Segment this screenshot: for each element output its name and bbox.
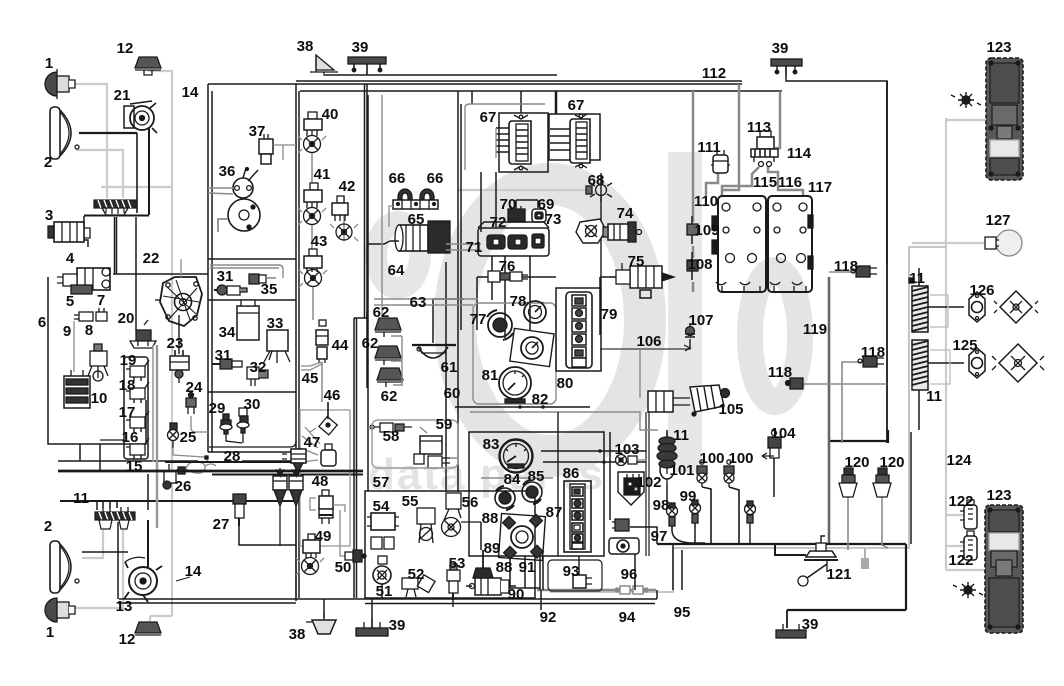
gauge 83 tachometer: [500, 440, 533, 473]
svg-text:19: 19: [120, 352, 137, 369]
coil 3 hook: [81, 240, 88, 247]
svg-text:7: 7: [97, 292, 105, 309]
plug 118a: [851, 266, 877, 277]
wire bus y412: [470, 412, 658, 430]
svg-text:66: 66: [427, 170, 444, 187]
svg-text:75: 75: [628, 253, 645, 270]
distributor 36: [208, 168, 260, 233]
svg-text:42: 42: [339, 178, 356, 195]
wire top bus y91: [300, 90, 782, 92]
svg-text:26: 26: [175, 478, 192, 495]
svg-text:98: 98: [653, 497, 670, 514]
harness 119 vertical: [828, 277, 831, 545]
box 120: [910, 432, 912, 544]
connector 52: [402, 575, 435, 597]
plug 120b: [873, 468, 891, 497]
svg-text:34: 34: [219, 324, 236, 341]
gray box 46-49: [300, 410, 350, 546]
svg-text:117: 117: [808, 179, 832, 196]
plug 25: [168, 423, 209, 461]
dome light 61: [412, 345, 456, 358]
svg-text:20: 20: [118, 310, 135, 327]
svg-text:31: 31: [215, 347, 232, 364]
wire 118a: [829, 271, 856, 273]
svg-text:109: 109: [694, 222, 719, 239]
svg-text:118: 118: [768, 364, 792, 381]
svg-text:45: 45: [302, 370, 319, 387]
svg-text:62: 62: [362, 335, 379, 352]
sidelight 1 top: [45, 69, 75, 99]
connector 88b: [473, 550, 493, 578]
svg-text:63: 63: [410, 294, 427, 311]
gauge 81 speedometer: [499, 367, 531, 403]
svg-text:93: 93: [563, 563, 580, 580]
lamp 12 bottom: [135, 622, 161, 635]
star mark bottom: [953, 582, 983, 598]
svg-text:94: 94: [619, 609, 636, 626]
resistor 102: [618, 472, 644, 505]
wire 93 drop: [578, 556, 580, 575]
box 6 engine sensors: [48, 277, 146, 444]
plug 9: [74, 312, 93, 372]
svg-text:17: 17: [119, 404, 136, 421]
svg-text:96: 96: [621, 566, 638, 583]
injector 18: [126, 382, 149, 403]
connector 11d: [657, 432, 677, 474]
wire headlamp2 main feed: [79, 132, 137, 134]
sidelight 1 bottom: [45, 598, 75, 622]
wire 112 top double run: [208, 83, 742, 85]
svg-text:100: 100: [728, 450, 753, 467]
svg-text:8: 8: [85, 322, 93, 339]
svg-text:58: 58: [383, 428, 400, 445]
box 15 injectors: [124, 357, 148, 459]
svg-text:67: 67: [568, 97, 585, 114]
ignition switch 51: [373, 556, 391, 584]
svg-text:71: 71: [466, 239, 483, 256]
svg-text:101: 101: [669, 462, 694, 479]
harness vertical 15: [156, 345, 159, 528]
svg-text:38: 38: [289, 626, 306, 643]
svg-text:122: 122: [948, 552, 973, 569]
connector bundle 11b: [909, 278, 948, 332]
wire 68 feed: [458, 189, 592, 191]
plug 118c: [786, 378, 804, 389]
svg-text:59: 59: [436, 416, 453, 433]
svg-text:118: 118: [834, 258, 858, 275]
wire 126 link: [928, 306, 964, 308]
svg-text:126: 126: [969, 282, 994, 299]
connector strip 11 bottom: [95, 507, 135, 529]
wire 121 branch: [775, 544, 806, 555]
lamp 62b: [375, 346, 401, 365]
flasher 47a: [282, 449, 306, 472]
gauge 77: [487, 310, 513, 340]
svg-text:119: 119: [803, 321, 827, 338]
plug 108: [687, 252, 698, 280]
plug 120a: [839, 468, 857, 497]
svg-text:37: 37: [249, 123, 266, 140]
svg-text:65: 65: [408, 211, 425, 228]
box A left harness: [208, 84, 212, 452]
svg-text:14: 14: [185, 563, 202, 580]
wire stub connector 122a: [946, 514, 963, 516]
connector 75a: [640, 290, 651, 298]
bottom bus y544: [657, 543, 906, 545]
svg-text:67: 67: [480, 109, 497, 126]
wire sidelight1 feed: [74, 84, 107, 198]
wire 101 tail: [666, 484, 668, 510]
svg-text:64: 64: [388, 262, 405, 279]
svg-text:107: 107: [688, 312, 713, 329]
wire 99 drop: [694, 527, 696, 544]
relay 41: [298, 183, 326, 225]
harness 124 upper branch: [550, 247, 946, 592]
svg-text:21: 21: [114, 87, 131, 104]
gray box 58 59: [372, 420, 458, 468]
headlamp 2 top: [50, 107, 79, 159]
svg-text:124: 124: [946, 452, 972, 469]
wires 83 to panel right: [541, 451, 646, 462]
wire vertical x446: [445, 262, 447, 492]
svg-text:11: 11: [673, 427, 689, 444]
bus 28: [165, 456, 363, 475]
panel side verticals: [646, 412, 649, 556]
svg-text:2: 2: [44, 154, 52, 171]
svg-text:108: 108: [687, 256, 712, 273]
sensor 53: [447, 564, 460, 600]
node dots 82: [518, 405, 522, 409]
bulb 68: [586, 178, 612, 202]
svg-text:73: 73: [545, 211, 562, 228]
wires under 71: [492, 256, 530, 338]
svg-text:54: 54: [373, 498, 390, 515]
plug 50: [340, 510, 366, 562]
wire 118b: [842, 362, 863, 443]
wire 82 bus: [455, 406, 590, 408]
svg-text:89: 89: [484, 540, 501, 557]
sensor 23: [170, 350, 189, 383]
svg-text:49: 49: [315, 528, 332, 545]
svg-text:70: 70: [500, 196, 517, 213]
svg-text:39: 39: [389, 617, 406, 634]
injector 17: [126, 411, 149, 432]
relay 43: [299, 249, 327, 287]
clamp 66b: [420, 189, 434, 200]
svg-text:102: 102: [636, 474, 661, 491]
connector 26: [163, 464, 185, 489]
wire headlamp2b feed: [82, 530, 103, 558]
svg-text:57: 57: [373, 474, 390, 491]
svg-text:39: 39: [772, 40, 789, 57]
harness outline 67a: [465, 104, 545, 170]
svg-text:11: 11: [73, 490, 89, 507]
wire 105 feeds: [639, 349, 641, 398]
plug 97: [612, 519, 629, 531]
wire 100a drop: [702, 487, 711, 544]
star mark top: [951, 92, 981, 108]
svg-text:11: 11: [926, 388, 942, 405]
svg-text:91: 91: [519, 559, 536, 576]
plug 103: [616, 455, 648, 466]
cable 116 battery link: [768, 167, 803, 196]
svg-text:11: 11: [909, 270, 925, 287]
wire 111 drop: [706, 172, 718, 196]
wire 59 links: [420, 427, 458, 458]
box 29 30: [209, 441, 296, 447]
gray bus over strip: [101, 186, 172, 188]
svg-text:127: 127: [985, 212, 1010, 229]
connector 122a: [960, 500, 977, 529]
svg-text:35: 35: [261, 281, 278, 298]
svg-text:105: 105: [718, 401, 743, 418]
switch 39b top right: [771, 59, 802, 75]
wire 38b riser: [323, 599, 325, 618]
wire 105 link: [600, 277, 628, 335]
wire 64 vertical: [367, 95, 369, 491]
diode 47b: [273, 468, 287, 546]
ignition switch 47: [300, 427, 336, 466]
svg-text:1: 1: [45, 55, 53, 72]
plug 104: [762, 431, 781, 460]
wire 62 chain: [391, 336, 402, 386]
connector block 67a: [496, 113, 548, 172]
diode 47c: [289, 468, 303, 598]
svg-text:40: 40: [322, 106, 339, 123]
svg-text:103: 103: [614, 441, 639, 458]
wire top bus under 38 39: [325, 74, 557, 76]
resistor 10: [64, 370, 90, 408]
switch 39 bottom: [356, 618, 388, 636]
motor 96: [609, 538, 639, 554]
wire 6 box to strip 11: [79, 444, 81, 461]
drops under panel: [510, 556, 525, 588]
svg-text:104: 104: [770, 425, 796, 442]
inline connector 94: [615, 586, 648, 594]
svg-text:38: 38: [297, 38, 314, 55]
svg-text:84: 84: [504, 471, 521, 488]
svg-text:50: 50: [335, 559, 352, 576]
svg-text:31: 31: [217, 268, 234, 285]
wire stub connector 122b: [946, 545, 963, 547]
svg-text:36: 36: [219, 163, 236, 180]
svg-text:43: 43: [311, 233, 328, 250]
svg-text:47: 47: [304, 434, 321, 451]
wire to connector 71: [446, 244, 481, 250]
svg-text:77: 77: [470, 311, 487, 328]
wire 51 drop: [381, 584, 383, 599]
svg-text:48: 48: [312, 473, 329, 490]
wire 56 to 88: [480, 522, 482, 550]
gauge 85: [522, 480, 542, 504]
svg-text:80: 80: [557, 375, 574, 392]
svg-text:87: 87: [546, 504, 563, 521]
right main vertical: [886, 81, 888, 443]
wire 104 drop: [773, 458, 775, 497]
svg-text:6: 6: [38, 314, 46, 331]
svg-text:29: 29: [209, 400, 226, 417]
svg-text:116: 116: [778, 174, 802, 191]
starter 4: [57, 268, 110, 294]
connector block 71 72: [478, 222, 549, 256]
wire 67a to 71 connectors: [481, 172, 496, 232]
spark plug 31b: [212, 359, 242, 369]
wire 111 dropper: [692, 91, 695, 222]
hanging connector 124a: [864, 548, 866, 558]
svg-text:5: 5: [66, 293, 74, 310]
svg-text:55: 55: [402, 493, 419, 510]
svg-text:44: 44: [332, 337, 349, 354]
wire headlamp2b to strip: [82, 551, 128, 553]
svg-text:16: 16: [122, 429, 139, 446]
svg-text:23: 23: [167, 335, 184, 352]
harness loop 28: [186, 462, 216, 474]
wire 95 risers: [657, 544, 682, 599]
svg-text:125: 125: [952, 337, 977, 354]
vacuum valve 37: [259, 134, 296, 164]
wire 120b drop: [882, 496, 888, 548]
wire starter to box A: [113, 273, 208, 275]
svg-text:123: 123: [986, 487, 1011, 504]
wire 63 vertical: [433, 299, 464, 343]
tail lamp 123b: [985, 505, 1023, 633]
svg-text:14: 14: [182, 84, 199, 101]
svg-text:92: 92: [540, 609, 557, 626]
plug 118b: [858, 356, 884, 367]
trailer bus y590: [537, 589, 656, 592]
connector 44: [316, 320, 328, 363]
wire 87 vertical: [557, 412, 559, 556]
wire 106: [600, 347, 690, 349]
wire to rear lamp 123b: [946, 569, 986, 571]
svg-text:85: 85: [528, 468, 545, 485]
svg-text:39: 39: [802, 616, 819, 633]
svg-text:33: 33: [267, 315, 284, 332]
relay 93: [573, 575, 592, 588]
svg-text:28: 28: [224, 448, 241, 465]
svg-text:114: 114: [787, 145, 812, 162]
ignition coil 65: [368, 221, 450, 253]
svg-text:12: 12: [117, 40, 134, 57]
svg-text:79: 79: [601, 306, 618, 323]
wire 63 pair: [374, 299, 478, 305]
svg-text:15: 15: [126, 458, 143, 475]
lamp socket 125: [969, 348, 985, 378]
wire 114 dropper: [775, 91, 780, 148]
switch 39c: [776, 624, 806, 638]
ignition lock 105: [648, 385, 730, 416]
wire sidelight1b feed: [75, 530, 123, 608]
ECU 54: [367, 513, 399, 549]
relay 56: [442, 493, 482, 537]
svg-text:99: 99: [680, 488, 697, 505]
wire 98 drop: [672, 531, 705, 543]
knock sensor 35: [210, 265, 283, 284]
sensor 76: [488, 271, 528, 282]
wire to plafond 127: [912, 242, 993, 244]
wire 11d drop: [666, 430, 668, 440]
wire strip11 to box B: [60, 500, 296, 502]
fuse box 86: [564, 481, 591, 552]
plug 29: [220, 414, 242, 443]
svg-text:10: 10: [91, 390, 108, 407]
svg-text:13: 13: [116, 598, 133, 615]
wire vertical x458: [457, 91, 459, 492]
wire 100b drop: [729, 487, 739, 544]
svg-text:32: 32: [250, 359, 267, 376]
wire harness14 to lamp12 bottom: [150, 616, 172, 621]
strip 11a output bus: [84, 215, 149, 217]
relay 33: [264, 330, 290, 363]
alternator 22: [155, 259, 202, 326]
wire 120a drop: [847, 496, 849, 550]
connector strip 11a: [94, 200, 137, 215]
svg-text:72: 72: [490, 214, 507, 231]
connector 111: [711, 150, 730, 173]
wire 90 link: [466, 585, 516, 587]
svg-text:60: 60: [444, 385, 461, 402]
lamp 12 top: [135, 57, 161, 75]
svg-text:111: 111: [697, 139, 720, 156]
connector 69: [532, 209, 546, 222]
lamp 62c: [377, 368, 403, 387]
wire alternator to 23: [178, 315, 180, 354]
reservoir 34: [237, 300, 259, 340]
connector 122b: [960, 531, 977, 560]
wire 58 link: [368, 426, 374, 428]
gauge 84: [495, 486, 515, 510]
wire strip11 to horn13: [147, 520, 149, 567]
svg-text:56: 56: [462, 494, 479, 511]
svg-text:18: 18: [119, 377, 136, 394]
wire lamp12 to harness14: [148, 71, 172, 616]
plug 98: [667, 503, 678, 531]
spark plug 24: [186, 393, 209, 433]
plug 100a: [697, 460, 707, 487]
wire 28 pills to box B: [242, 460, 296, 462]
svg-text:53: 53: [449, 555, 466, 572]
injector 19: [126, 360, 149, 381]
svg-text:122: 122: [948, 493, 973, 510]
lamp 62a: [375, 318, 401, 337]
connector bundle 11c: [912, 340, 950, 390]
antenna 38 bottom: [306, 612, 336, 634]
wire 118c: [803, 383, 887, 385]
wire 14 leader: [176, 577, 190, 581]
repeater lamp 126r: [994, 291, 1038, 323]
svg-text:25: 25: [180, 429, 197, 446]
heater motor 75: [610, 263, 674, 288]
horn 21: [124, 101, 157, 133]
wire 84 bracket: [481, 477, 553, 479]
svg-text:82: 82: [532, 391, 549, 408]
svg-text:112: 112: [702, 65, 726, 82]
relay link wires box B: [312, 153, 344, 402]
svg-text:76: 76: [499, 258, 516, 275]
svg-text:110: 110: [694, 193, 718, 210]
gauge 80: [510, 328, 554, 366]
float 101: [660, 461, 674, 484]
svg-text:113: 113: [747, 119, 771, 136]
terminal bar 66: [389, 200, 438, 227]
wire 79 riser: [600, 173, 602, 288]
indicator cluster 89: [499, 514, 546, 561]
svg-text:97: 97: [651, 528, 668, 545]
svg-text:24: 24: [186, 379, 203, 396]
svg-text:120: 120: [879, 454, 904, 471]
svg-text:2: 2: [44, 518, 52, 535]
wire horn21 drop: [148, 127, 150, 215]
